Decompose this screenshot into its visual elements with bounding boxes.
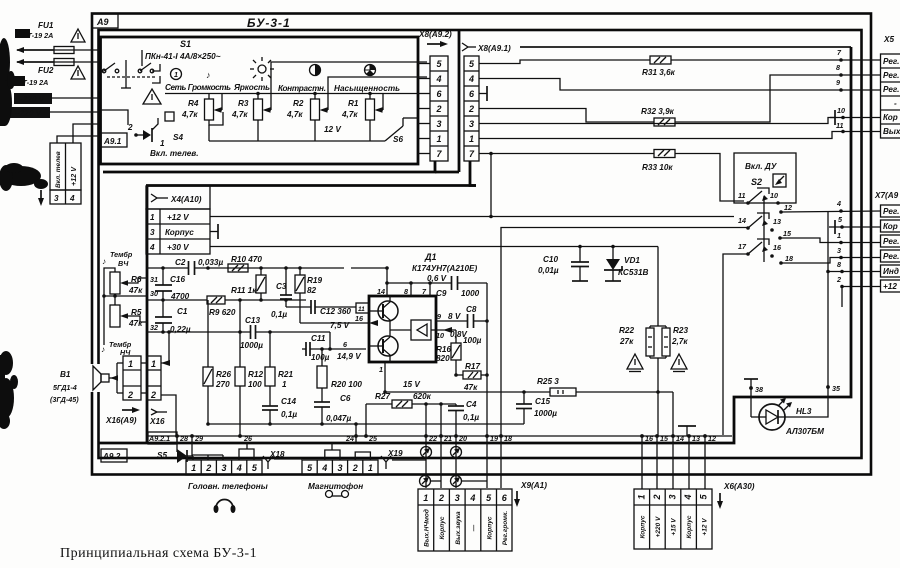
warning triangle top-left 1 <box>71 29 85 42</box>
svg-text:В1: В1 <box>60 370 71 379</box>
svg-text:2: 2 <box>352 463 358 473</box>
svg-text:0,01µ: 0,01µ <box>538 266 559 275</box>
svg-text:Рег.громк.: Рег.громк. <box>502 511 509 546</box>
svg-text:R19: R19 <box>307 276 322 285</box>
transistor T2 <box>369 336 398 362</box>
wire +12V col to frame <box>73 124 99 143</box>
svg-text:А9.2: А9.2 <box>102 452 121 461</box>
svg-text:АЛ307БМ: АЛ307БМ <box>785 427 824 436</box>
svg-text:4: 4 <box>149 243 155 252</box>
connector box Вкл.телев/+12V <box>50 143 81 190</box>
svg-text:1: 1 <box>379 365 383 374</box>
S2 pole 3 contacts 17-16 <box>746 252 750 256</box>
warning triangle in box <box>143 89 161 104</box>
resistor R33 10k <box>642 150 675 173</box>
svg-text:18: 18 <box>785 254 793 263</box>
vertical node18 to X9 <box>500 436 502 488</box>
wire 220V-1 to frame <box>52 97 99 99</box>
svg-text:15 V: 15 V <box>403 380 421 389</box>
svg-text:820: 820 <box>436 354 450 363</box>
svg-text:3: 3 <box>337 463 342 473</box>
connector X4(A10) header <box>146 186 210 209</box>
svg-text:R2: R2 <box>293 99 304 108</box>
svg-text:1: 1 <box>150 213 155 222</box>
svg-text:R16: R16 <box>436 345 451 354</box>
resistor R25 3 <box>550 388 576 396</box>
svg-text:0,1µ: 0,1µ <box>281 410 297 419</box>
svg-text:2: 2 <box>150 390 156 400</box>
resistor R20 100 <box>317 366 327 388</box>
svg-text:C11: C11 <box>311 334 326 343</box>
smudge over ВПТ text 2 <box>9 76 25 86</box>
svg-text:3: 3 <box>837 246 841 255</box>
wire LED to node 35 <box>785 387 828 417</box>
zener VD1 KC531B <box>612 247 614 260</box>
svg-text:16: 16 <box>355 314 364 323</box>
svg-text:S2: S2 <box>751 177 762 187</box>
wire row4 to X5 pin9 <box>479 79 881 91</box>
svg-text:1: 1 <box>368 463 373 473</box>
vertical node19 to X9 <box>486 436 488 488</box>
A9.1 label box <box>101 133 127 147</box>
svg-text:4,7к: 4,7к <box>341 110 358 119</box>
svg-text:6: 6 <box>469 89 475 99</box>
ground tick above node 13 <box>678 425 696 427</box>
svg-text:S1: S1 <box>180 39 191 49</box>
svg-text:11: 11 <box>738 191 745 200</box>
svg-text:0,1µ: 0,1µ <box>463 413 479 422</box>
svg-text:4: 4 <box>469 493 475 503</box>
svg-text:Сеть Громкость: Сеть Громкость <box>165 83 231 92</box>
LED arrows <box>778 399 785 406</box>
svg-text:Х8(А9.2): Х8(А9.2) <box>418 30 452 39</box>
connector X9 table <box>418 489 512 551</box>
svg-text:2: 2 <box>205 463 211 473</box>
pin 11 cell <box>356 303 369 313</box>
node column 24 <box>355 424 357 443</box>
svg-text:3: 3 <box>455 493 460 503</box>
svg-text:~220 V: ~220 V <box>18 95 46 104</box>
wires speaker to X16(A9) <box>117 363 123 393</box>
S2 pin 12 <box>779 210 783 214</box>
svg-text:Х9(А1): Х9(А1) <box>520 481 547 490</box>
svg-text:4: 4 <box>468 74 474 84</box>
resistor R27 620k <box>392 400 412 408</box>
svg-text:Рег.: Рег. <box>883 57 899 66</box>
thick bus joining separator <box>435 171 459 174</box>
svg-text:C10: C10 <box>543 255 558 264</box>
svg-text:1: 1 <box>469 134 474 144</box>
rail y268 in module <box>147 267 387 269</box>
warning triangle under R23 <box>671 354 687 369</box>
svg-text:7: 7 <box>469 149 475 159</box>
svg-text:S6: S6 <box>393 135 403 144</box>
svg-text:Х8(А9.1): Х8(А9.1) <box>477 44 511 53</box>
resistor R12 100 <box>235 367 245 386</box>
svg-text:14: 14 <box>377 287 385 296</box>
svg-text:2: 2 <box>127 390 133 400</box>
vertical R20 column <box>321 349 323 366</box>
resistors R22/R23 parallel pair <box>657 247 659 327</box>
node column 22 <box>425 404 427 488</box>
wire node14 column <box>672 392 674 436</box>
svg-text:3: 3 <box>469 119 474 129</box>
thick separator between X8 columns <box>458 31 461 172</box>
+12V rail <box>210 216 734 218</box>
capacitor C2 0,033u <box>188 261 190 275</box>
stubs inner box to X8(A9.2) <box>418 64 430 154</box>
svg-text:Тембр: Тембр <box>110 250 133 259</box>
svg-text:0,047µ: 0,047µ <box>326 414 351 423</box>
svg-text:Х4(А10): Х4(А10) <box>170 195 202 204</box>
chassis ground X7 pin5 <box>834 220 836 234</box>
svg-text:Вых: Вых <box>883 127 900 136</box>
svg-text:3: 3 <box>54 194 59 203</box>
svg-text:Х7(А9: Х7(А9 <box>874 191 899 200</box>
capacitor C1 0,22u <box>155 317 172 323</box>
svg-text:~220 V: ~220 V <box>15 109 43 118</box>
svg-text:C2: C2 <box>175 258 186 267</box>
svg-text:C3: C3 <box>276 282 287 291</box>
svg-text:C9: C9 <box>436 289 447 298</box>
adjust square symbol <box>773 174 786 187</box>
svg-text:9: 9 <box>836 78 840 87</box>
svg-text:Кор: Кор <box>883 222 898 231</box>
pin 9 wire with C8 <box>436 320 487 322</box>
label X16(A9) <box>122 409 136 411</box>
svg-text:6: 6 <box>343 340 348 349</box>
svg-text:5: 5 <box>307 463 313 473</box>
connector X16(A9) column <box>123 356 141 400</box>
svg-text:1000µ: 1000µ <box>534 409 557 418</box>
svg-text:А9.1: А9.1 <box>103 137 122 146</box>
svg-text:FU2: FU2 <box>38 66 54 75</box>
resistor R26 270 <box>203 367 213 386</box>
svg-text:5: 5 <box>838 215 843 224</box>
svg-text:Х6(А30): Х6(А30) <box>723 482 755 491</box>
rail y332 with C13 <box>147 331 330 333</box>
svg-text:К174УН7(А210Е): К174УН7(А210Е) <box>412 264 477 273</box>
transistor T1 <box>369 296 398 337</box>
resistor R11 1k <box>256 275 266 293</box>
svg-text:7: 7 <box>436 149 442 159</box>
connector X8(A9.1) label <box>462 43 468 51</box>
svg-text:R1: R1 <box>348 99 359 108</box>
wire R31 to X5 pin7 <box>671 59 881 61</box>
svg-text:ПКн-41-I 4А/8×250~: ПКн-41-I 4А/8×250~ <box>145 52 221 61</box>
arrow out left 1 <box>17 49 54 51</box>
wire into S4 from left <box>101 110 129 125</box>
svg-text:Кор: Кор <box>883 113 898 122</box>
resistor R17 47k <box>463 371 481 379</box>
svg-text:5: 5 <box>252 463 258 473</box>
svg-text:32: 32 <box>150 323 158 332</box>
wire bottom rail in box <box>209 140 385 142</box>
wire node29 to cells <box>192 436 223 455</box>
A9.2 label box <box>101 449 127 462</box>
svg-text:2: 2 <box>435 104 441 114</box>
label X16 <box>151 409 157 415</box>
svg-text:47к: 47к <box>463 383 478 392</box>
svg-text:8: 8 <box>837 260 841 269</box>
svg-text:Вкл. телев: Вкл. телев <box>55 151 62 188</box>
svg-text:Д1: Д1 <box>424 252 437 262</box>
svg-text:4,7к: 4,7к <box>231 110 248 119</box>
outer frame A9 <box>92 14 871 475</box>
svg-text:C12 360: C12 360 <box>320 307 351 316</box>
svg-text:+15 V: +15 V <box>671 518 678 536</box>
svg-text:1: 1 <box>637 494 647 499</box>
svg-text:БУ-3-1: БУ-3-1 <box>247 16 291 30</box>
pin 8 <box>410 283 412 296</box>
svg-text:6: 6 <box>502 493 508 503</box>
svg-text:—: — <box>471 524 478 532</box>
short links at plug circles <box>431 480 441 482</box>
svg-text:2: 2 <box>468 104 474 114</box>
svg-text:Вых.звука: Вых.звука <box>455 511 462 545</box>
svg-text:+12 V: +12 V <box>702 518 709 536</box>
svg-text:Вых.НЧмод: Вых.НЧмод <box>423 509 431 547</box>
S2 mechanical link <box>763 196 765 262</box>
stubs cells 4-5 headphones <box>239 449 254 460</box>
contrast icon <box>310 65 321 76</box>
resistor R19 82 <box>295 275 305 293</box>
svg-text:C4: C4 <box>466 400 477 409</box>
node column 21 <box>440 404 442 488</box>
svg-text:14,9 V: 14,9 V <box>337 352 362 361</box>
sun icon яркость <box>250 57 274 81</box>
svg-text:Корпус: Корпус <box>686 515 693 538</box>
svg-text:38: 38 <box>755 385 763 394</box>
chassis ground at Корпус row <box>210 231 218 233</box>
svg-text:2,7к: 2,7к <box>671 337 688 346</box>
svg-text:Х5: Х5 <box>883 35 894 44</box>
connector tape recorder cells <box>302 460 378 475</box>
svg-text:620к: 620к <box>413 392 432 401</box>
svg-text:3: 3 <box>436 119 441 129</box>
svg-text:C1: C1 <box>177 307 188 316</box>
svg-text:82: 82 <box>307 286 317 295</box>
svg-text:HL3: HL3 <box>796 407 812 416</box>
svg-text:R31 3,6к: R31 3,6к <box>642 68 676 77</box>
switch S6 <box>385 126 403 141</box>
svg-text:1: 1 <box>423 493 428 503</box>
svg-text:5ГД1-4: 5ГД1-4 <box>53 383 77 392</box>
resistor R16 820 <box>455 330 457 343</box>
svg-text:14: 14 <box>738 216 746 225</box>
svg-text:♪: ♪ <box>102 257 106 266</box>
svg-text:0,6 V: 0,6 V <box>427 274 448 283</box>
IC D1 box <box>369 296 436 362</box>
LED HL3 <box>750 397 752 417</box>
svg-text:R23: R23 <box>673 326 688 335</box>
wire телев box to frame <box>57 136 99 143</box>
capacitor C4 0,1u <box>455 404 457 406</box>
svg-text:VD1: VD1 <box>624 256 640 265</box>
photocopy blob bottom-left <box>0 351 18 429</box>
svg-text:Головн. телефоны: Головн. телефоны <box>188 482 268 491</box>
cassette icon <box>326 491 349 498</box>
svg-text:R17: R17 <box>465 362 480 371</box>
capacitor C14 0,1u <box>262 406 278 410</box>
svg-text:4: 4 <box>435 74 441 84</box>
connector headphones cells <box>186 460 262 475</box>
svg-text:Корпус: Корпус <box>165 228 194 237</box>
svg-text:C14: C14 <box>281 397 296 406</box>
pin 1 <box>384 362 386 392</box>
svg-text:1: 1 <box>191 463 196 473</box>
speaker B1 symbol <box>88 364 101 392</box>
svg-text:0,033µ: 0,033µ <box>198 258 223 267</box>
svg-text:Инд: Инд <box>883 267 899 276</box>
wires between X16 columns <box>141 363 147 393</box>
connector X8(A9.1) column <box>464 56 479 161</box>
headphones icon <box>216 500 233 509</box>
svg-text:15: 15 <box>783 229 792 238</box>
svg-text:11: 11 <box>358 306 365 313</box>
wire row7 to R33 <box>479 153 654 155</box>
svg-text:11: 11 <box>836 121 843 130</box>
svg-text:1: 1 <box>151 359 156 369</box>
A9 module label box <box>92 14 118 28</box>
svg-text:Х16(А9): Х16(А9) <box>105 416 137 425</box>
connector X16 column <box>147 356 161 400</box>
plug circles on X9 leads <box>421 447 432 458</box>
svg-text:5: 5 <box>699 494 709 500</box>
tap wire down from row7 <box>490 154 492 218</box>
svg-text:2: 2 <box>652 494 662 500</box>
S2 pin 15 <box>778 236 782 240</box>
smudge over ВПТ text 1 <box>15 29 30 38</box>
circled 1 symbol <box>171 69 182 80</box>
svg-text:R33 10к: R33 10к <box>642 163 673 172</box>
svg-text:+12 V: +12 V <box>69 166 78 186</box>
svg-text:0,1µ: 0,1µ <box>271 310 287 319</box>
switch S2 box <box>734 153 796 203</box>
resistor R10 470 <box>228 264 248 272</box>
photocopy blob top-left <box>0 38 15 126</box>
svg-text:100µ: 100µ <box>311 353 330 362</box>
svg-text:2: 2 <box>836 275 841 284</box>
svg-text:8: 8 <box>404 287 408 296</box>
left rail and pot ends <box>104 268 115 345</box>
svg-text:1: 1 <box>174 70 178 79</box>
pot R5 47k <box>110 305 120 327</box>
wire pin11 with C12 360 <box>286 306 356 308</box>
pot R6 47k <box>110 272 120 294</box>
svg-text:R21: R21 <box>278 370 293 379</box>
node column 25 <box>365 404 367 436</box>
svg-text:+12 V: +12 V <box>167 213 190 222</box>
svg-text:R11 1к: R11 1к <box>231 286 257 295</box>
fuse FU1 <box>54 47 74 54</box>
svg-text:Х19: Х19 <box>387 449 403 458</box>
module A9.2 top edge <box>146 184 476 187</box>
wire X16 pin2 down <box>161 395 176 436</box>
fuse FU2 <box>54 59 74 66</box>
svg-text:47к: 47к <box>128 319 143 328</box>
svg-text:3: 3 <box>221 463 226 473</box>
chassis ground on pin10 wire <box>834 110 836 125</box>
A9.21 label box <box>148 432 177 444</box>
wire top rail in box <box>165 93 418 95</box>
svg-text:+30 V: +30 V <box>167 243 190 252</box>
inner frame <box>99 30 862 458</box>
svg-text:4: 4 <box>321 463 327 473</box>
top module box БУ-3-1 <box>101 37 419 164</box>
svg-text:(3ГД-45): (3ГД-45) <box>50 395 79 404</box>
wire y392 <box>385 391 673 393</box>
svg-text:R32 3,9к: R32 3,9к <box>641 107 675 116</box>
svg-text:1: 1 <box>282 380 287 389</box>
wire X8(A9.1) header line to right bus <box>520 46 851 48</box>
svg-text:C13: C13 <box>245 316 260 325</box>
svg-text:S5: S5 <box>157 451 167 460</box>
svg-text:КС531В: КС531В <box>618 268 648 277</box>
svg-text:FU1: FU1 <box>38 21 54 30</box>
wire X16 pin1 to rail <box>161 332 169 363</box>
capacitor C8 100u <box>467 314 469 328</box>
wire pin15 to X7 pin1 <box>780 238 881 243</box>
svg-text:R25 3: R25 3 <box>537 377 559 386</box>
wire S2 pin14 control <box>501 228 748 436</box>
svg-text:Вкл. ДУ: Вкл. ДУ <box>745 162 778 171</box>
arrow out left 2 <box>17 61 54 63</box>
module A9.2 left edge <box>146 186 149 444</box>
~220V label block 2 <box>10 107 50 118</box>
svg-text:R26: R26 <box>216 370 231 379</box>
capacitor C9 1000 <box>451 276 453 290</box>
stubs tape recorder cells <box>325 450 340 460</box>
svg-text:31: 31 <box>150 275 158 284</box>
rail nodes y436 <box>147 435 732 437</box>
svg-text:Вкл. телев.: Вкл. телев. <box>150 149 199 158</box>
wire fuse1 to frame <box>74 49 100 51</box>
capacitor C10 0,01u <box>579 247 581 263</box>
S2 pin 18 <box>779 261 783 265</box>
thick bus from X8(A9.2) bottom <box>103 161 435 172</box>
vertical R21 column <box>269 332 271 367</box>
svg-text:7: 7 <box>837 48 842 57</box>
svg-text:8 V: 8 V <box>448 312 462 321</box>
node dots and numbers <box>175 434 716 443</box>
svg-text:12: 12 <box>784 203 792 212</box>
svg-text:4: 4 <box>236 463 242 473</box>
svg-text:4: 4 <box>683 494 693 500</box>
svg-text:5: 5 <box>436 59 442 69</box>
thick bus from X8(A9.1) bottom to module top <box>470 161 476 186</box>
svg-text:♪: ♪ <box>206 70 211 80</box>
svg-text:C6: C6 <box>340 394 351 403</box>
svg-text:2: 2 <box>438 493 444 503</box>
svg-text:10: 10 <box>837 106 845 115</box>
svg-text:Яркость: Яркость <box>233 83 270 92</box>
wire pin18 to X7 pin3 <box>781 258 881 264</box>
warning triangle top-left 2 <box>71 66 85 79</box>
svg-text:3: 3 <box>150 228 155 237</box>
wire R32 to X5 pin8 <box>675 75 881 122</box>
+30V rail <box>210 246 658 248</box>
svg-text:10: 10 <box>770 191 778 200</box>
svg-text:35: 35 <box>832 384 841 393</box>
svg-text:Рег.: Рег. <box>883 252 899 261</box>
resistor R32 3,9k <box>641 107 675 126</box>
pin 7 <box>429 283 431 296</box>
svg-text:C16: C16 <box>170 275 185 284</box>
switch S1 contacts <box>101 50 161 88</box>
connector X7 boxes <box>881 205 900 292</box>
wire R27 row <box>366 403 456 405</box>
